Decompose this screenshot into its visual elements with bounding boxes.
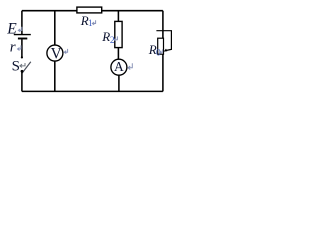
- pilcrow mark after E: [18, 27, 22, 32]
- resistor R0 box: [158, 38, 164, 54]
- svg-text:E: E: [6, 21, 17, 38]
- wire top horizontal: [22, 10, 163, 12]
- svg-text:1: 1: [88, 19, 93, 29]
- pilcrow mark after r: [18, 45, 22, 50]
- pilcrow mark after R2: [114, 36, 117, 41]
- resistor R2 box: [115, 21, 122, 47]
- svg-text:0: 0: [156, 48, 161, 58]
- svg-text:r: r: [10, 39, 16, 55]
- svg-text:A: A: [114, 59, 124, 74]
- voltmeter circle: [47, 45, 63, 61]
- switch S upper contact dot: [21, 56, 23, 58]
- pilcrow mark after S: [20, 63, 25, 68]
- switch blade: [22, 62, 31, 73]
- battery E long plate: [14, 34, 31, 36]
- wire switch to bottom: [21, 71, 23, 91]
- battery E short plate: [18, 38, 27, 40]
- svg-text:S: S: [12, 58, 20, 74]
- wire left vertical upper: [21, 11, 23, 35]
- svg-text:R: R: [101, 29, 110, 44]
- wire R2 branch stub: [117, 11, 119, 22]
- wire right branch upper: [162, 11, 164, 39]
- resistor R1 box: [77, 7, 102, 13]
- ammeter circle: [111, 59, 127, 75]
- rheostat slider arrow bent around R0: [156, 31, 171, 51]
- switch lower contact dot: [21, 70, 24, 73]
- wire voltmeter branch upper: [54, 11, 56, 46]
- rheostat arrowhead: [164, 49, 168, 52]
- pilcrow mark after V: [64, 49, 67, 54]
- pilcrow mark after A: [128, 63, 132, 69]
- wire R2 to ammeter: [117, 48, 119, 60]
- wire right branch lower: [162, 54, 164, 91]
- pilcrow mark after R0: [160, 49, 163, 53]
- wire ammeter to bottom: [118, 75, 120, 91]
- pilcrow mark after R1: [92, 20, 95, 25]
- wire bottom horizontal: [22, 90, 163, 92]
- wire battery to switch: [21, 39, 23, 57]
- svg-text:2: 2: [110, 36, 115, 46]
- wire voltmeter branch lower: [54, 61, 56, 91]
- svg-text:V: V: [51, 45, 62, 62]
